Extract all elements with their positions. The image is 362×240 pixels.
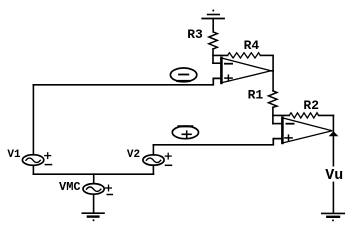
wire V2 top (152, 145, 154, 155)
VMC plus marking (106, 185, 112, 191)
op-amp U1 plus marking (225, 75, 232, 81)
svg-text:V2: V2 (127, 149, 140, 161)
wire R3 to minus-input node (212, 49, 214, 63)
op-amp U1 left edge (220, 58, 223, 83)
wire minus input stub U1 (213, 62, 220, 64)
V2 plus marking (165, 153, 171, 159)
wire minus input stub U2 (273, 123, 282, 125)
wire plus input bus (from V2 to U2) (153, 139, 281, 145)
wire R2 to right vertical (319, 114, 334, 116)
wire node to R2 (273, 114, 289, 116)
resistor R1 (269, 91, 278, 108)
source E2 (ellipse with - and +) on U2 plus bus (172, 126, 198, 139)
op-amp U2 plus marking (285, 135, 292, 141)
VMC minus marking (107, 194, 112, 196)
ground VMC (82, 213, 104, 221)
op-amp U1 minus marking (225, 63, 232, 65)
source V2 (143, 155, 164, 165)
wire VMC bottom (93, 194, 95, 212)
resistor R3 (209, 32, 218, 49)
wire VMC tap (93, 174, 95, 183)
op-amp U2 minus marking (286, 123, 293, 125)
svg-text:Vu: Vu (325, 167, 343, 184)
wire right vertical opamp1 (R4 to output to R1) (272, 55, 274, 90)
svg-text:R3: R3 (187, 27, 203, 42)
wire plus input bus (from V1 corner to U1) (33, 78, 220, 84)
V1 plus marking (45, 153, 51, 159)
svg-text:R2: R2 (303, 98, 319, 113)
wire bottom bus V1 to V2 (33, 173, 153, 175)
V2 minus marking (166, 164, 172, 166)
wire right vertical opamp2 (R2 to output to Vu) (332, 115, 334, 165)
svg-text:VMC: VMC (59, 180, 81, 194)
ground Vu (322, 213, 345, 221)
svg-text:V1: V1 (7, 149, 21, 161)
wire R1 to minus node opamp2 (272, 107, 274, 123)
wire V1 top (corner down to V1) (32, 85, 34, 155)
wire V1 bottom (32, 165, 34, 174)
resistor R4 (228, 53, 261, 58)
wire Vu to ground (332, 182, 334, 213)
V1 minus marking (45, 164, 51, 166)
source V1 (22, 155, 43, 166)
wire R4 to right vertical (260, 54, 273, 56)
resistor R2 (289, 113, 318, 118)
output arrow marker (Vu) (329, 131, 339, 136)
source E1 (ellipse with - and +) on U1 plus bus (170, 68, 196, 82)
wire node to R4 (213, 54, 228, 56)
source VMC (83, 184, 104, 195)
svg-text:R1: R1 (248, 88, 264, 103)
op-amp U1 triangle (223, 58, 271, 82)
output wire U1 (271, 70, 273, 72)
op-amp U2 triangle (284, 118, 333, 143)
wire top ground to R3 (212, 19, 214, 32)
op-amp U2 left edge (281, 118, 284, 143)
power/ground symbol top (inverted ground) (202, 10, 224, 19)
wire V2 bottom (152, 165, 154, 174)
svg-text:R4: R4 (244, 38, 260, 53)
